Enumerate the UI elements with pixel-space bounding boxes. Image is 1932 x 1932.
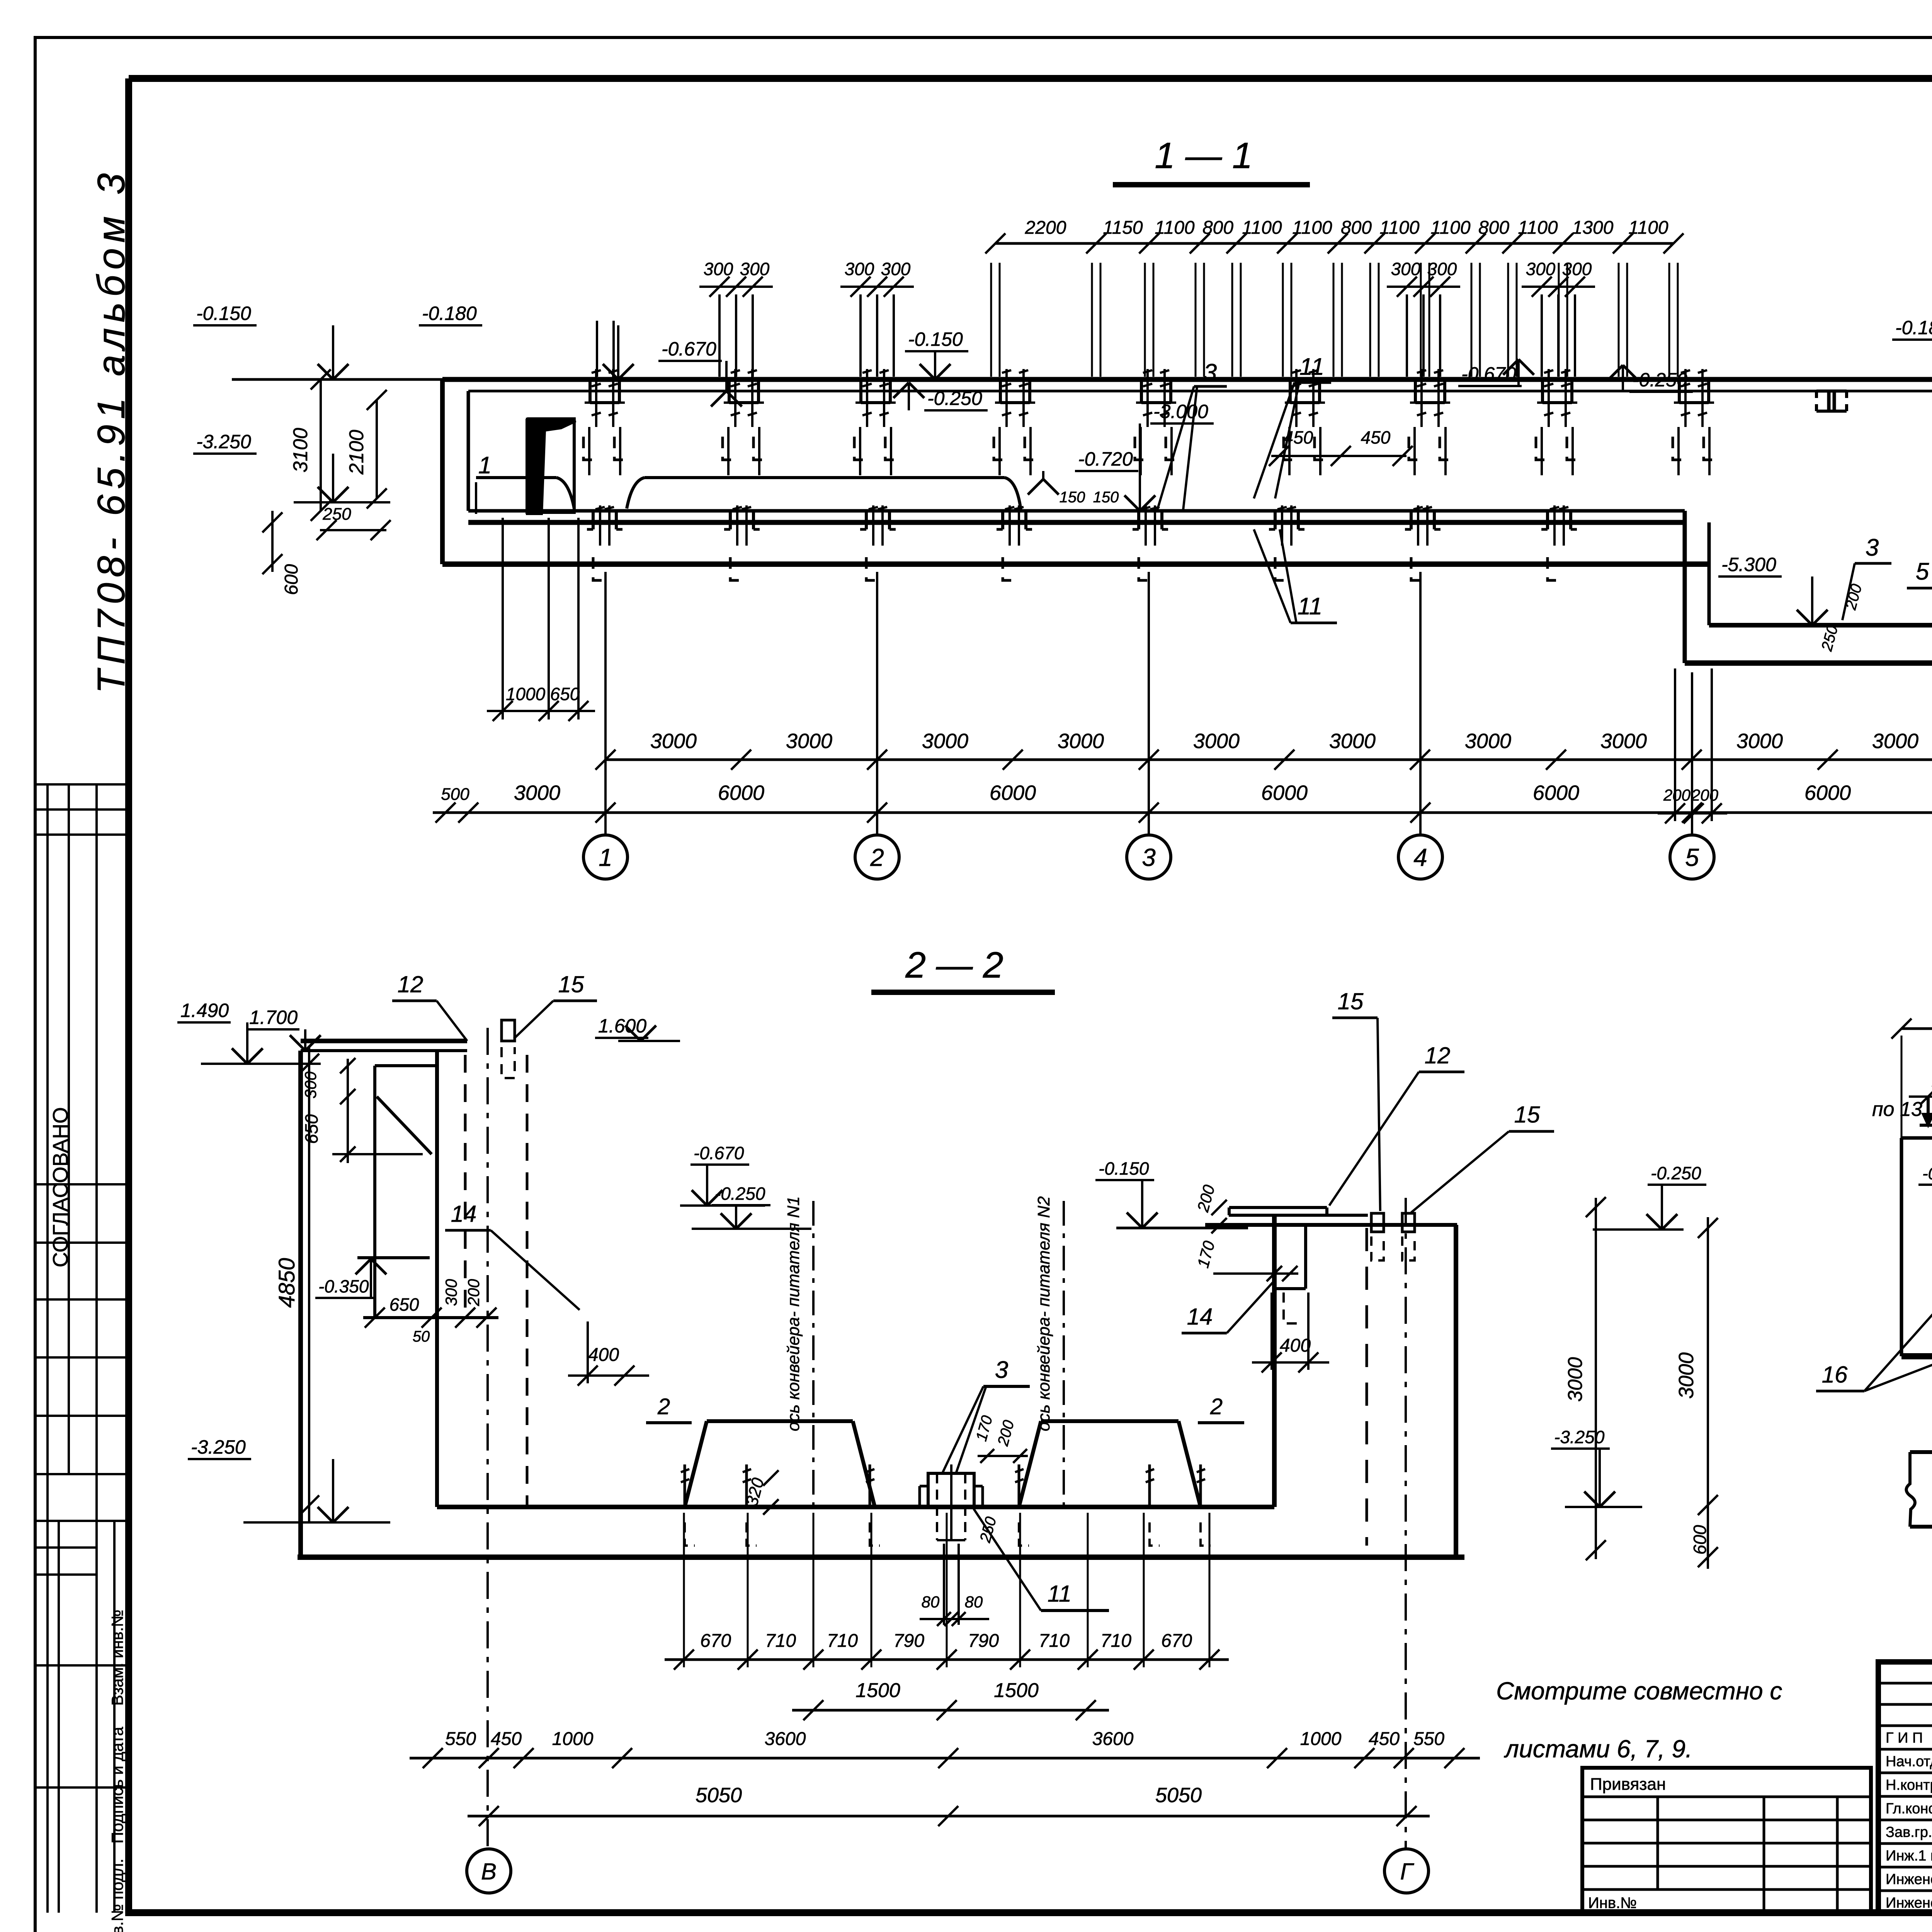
svg-text:3000: 3000 [1872, 730, 1918, 753]
1-1 I-beam under roof [1816, 389, 1847, 393]
1-1 top dimension chain [995, 242, 1673, 245]
svg-text:400: 400 [1280, 1335, 1311, 1356]
1-1 floor anchor pocket 6 [1274, 511, 1277, 529]
1-1 trench lip right [627, 478, 645, 509]
svg-text:12: 12 [1425, 1043, 1451, 1068]
svg-text:Г И П: Г И П [1886, 1730, 1923, 1746]
svg-text:710: 710 [827, 1631, 858, 1651]
svg-text:по 13: по 13 [1872, 1098, 1922, 1121]
2-2 bottom chain row 670-710 [665, 1658, 1229, 1661]
2-2 hidden line right [1366, 1228, 1368, 1546]
svg-text:3000: 3000 [786, 730, 832, 753]
svg-text:Инженер: Инженер [1886, 1871, 1932, 1888]
1-1 bottom slab [442, 561, 1709, 567]
svg-text:710: 710 [1100, 1631, 1131, 1651]
svg-text:-3.250: -3.250 [191, 1436, 246, 1458]
svg-text:1100: 1100 [1430, 218, 1471, 238]
svg-text:2 — 2: 2 — 2 [905, 945, 1003, 986]
svg-text:Н.контр.: Н.контр. [1886, 1777, 1932, 1793]
svg-text:-3.250: -3.250 [196, 431, 251, 452]
svg-text:2: 2 [657, 1394, 670, 1419]
svg-text:2200: 2200 [1025, 218, 1066, 238]
svg-text:3000: 3000 [1564, 1357, 1587, 1402]
svg-text:600: 600 [281, 564, 302, 595]
1-1 roof anchor pocket 9 [1678, 379, 1681, 403]
1-1 pit bottom slab [1685, 660, 1932, 666]
2-2 dowels on right wall [1371, 1213, 1384, 1232]
svg-text:3: 3 [1866, 534, 1879, 561]
svg-text:1100: 1100 [1292, 218, 1332, 238]
svg-text:400: 400 [588, 1345, 619, 1365]
svg-text:670: 670 [1161, 1631, 1192, 1651]
svg-text:300: 300 [301, 1071, 320, 1099]
svg-text:5050: 5050 [1155, 1784, 1202, 1807]
2-2 center anchor block [928, 1473, 974, 1507]
svg-text:550: 550 [445, 1729, 476, 1749]
2-2 axis G dash-dot line [1405, 1198, 1407, 1848]
1-1 roof anchor pocket 2 [728, 379, 731, 403]
svg-text:1100: 1100 [1379, 218, 1420, 238]
1-1 floor anchor pocket 1 [592, 511, 595, 529]
svg-text:450: 450 [1369, 1729, 1400, 1749]
svg-text:300: 300 [881, 259, 911, 279]
svg-text:1.490: 1.490 [180, 1000, 229, 1021]
svg-text:3000: 3000 [1465, 730, 1511, 753]
svg-text:1300: 1300 [1572, 218, 1614, 238]
svg-text:4: 4 [1413, 844, 1427, 871]
svg-text:650: 650 [550, 684, 580, 704]
svg-text:ось конвейера- питателя N2: ось конвейера- питателя N2 [1034, 1196, 1053, 1431]
svg-text:3600: 3600 [765, 1729, 806, 1749]
1-1 axis lines [604, 572, 607, 834]
svg-text:300: 300 [845, 259, 874, 279]
svg-text:-3.000: -3.000 [1153, 401, 1208, 422]
2-2 dim 80 80 [920, 1618, 989, 1620]
2-2 left wall cap [301, 1039, 467, 1043]
svg-text:150: 150 [1093, 489, 1119, 506]
svg-text:300: 300 [1391, 259, 1421, 279]
svg-text:-0.250: -0.250 [1633, 369, 1687, 391]
svg-text:3000: 3000 [1736, 730, 1783, 753]
2-2 niche bottom dims 650 300 200 50 [365, 1308, 385, 1328]
svg-text:200: 200 [464, 1279, 483, 1306]
svg-text:1150: 1150 [1103, 218, 1143, 238]
title block name table grid [1878, 1682, 1932, 1685]
1-1 roof anchor pocket 4 [999, 379, 1002, 403]
1-1 roof anchor pocket 6 [1289, 379, 1292, 403]
svg-text:1500: 1500 [994, 1679, 1039, 1702]
1-1 floor anchor pocket 3 [865, 511, 868, 529]
1-1 dim 2100 left [376, 400, 378, 498]
svg-text:3000: 3000 [1329, 730, 1376, 753]
1-1 roof anchor pocket 7 [1414, 379, 1417, 403]
svg-text:-0.150: -0.150 [1099, 1158, 1149, 1179]
svg-text:16: 16 [1822, 1362, 1848, 1388]
svg-text:1: 1 [478, 452, 492, 479]
svg-text:3: 3 [995, 1357, 1008, 1383]
2-2 dowel on left wall top [502, 1020, 515, 1041]
svg-text:-0.670: -0.670 [1922, 1164, 1932, 1183]
svg-text:Инв.№ подл.: Инв.№ подл. [108, 1859, 126, 1932]
1-1 dim 3100 left [320, 379, 322, 511]
2-2 conveyor axis N2 [1063, 1201, 1065, 1507]
svg-text:3000: 3000 [922, 730, 968, 753]
svg-text:Инв.№: Инв.№ [1588, 1895, 1637, 1912]
1-1 left wall [440, 379, 445, 564]
svg-text:2: 2 [870, 844, 884, 871]
1-1 roof anchor pocket 3 [859, 379, 862, 403]
1-1 roof slab soffit [468, 390, 1932, 393]
svg-text:550: 550 [1413, 1729, 1444, 1749]
1-1 roof anchor pocket 1 [588, 379, 592, 403]
svg-text:1.700: 1.700 [249, 1007, 298, 1028]
svg-text:5: 5 [1916, 558, 1929, 585]
svg-text:1100: 1100 [1155, 218, 1195, 238]
svg-text:1100: 1100 [1518, 218, 1558, 238]
2-2 feeder pedestal 2 [1041, 1419, 1179, 1423]
svg-text:1000: 1000 [506, 684, 546, 704]
svg-text:-0.150: -0.150 [908, 328, 963, 350]
svg-text:14: 14 [451, 1201, 477, 1227]
svg-text:1000: 1000 [1300, 1729, 1342, 1749]
svg-text:листами 6, 7, 9.: листами 6, 7, 9. [1503, 1735, 1692, 1763]
svg-text:300: 300 [740, 259, 770, 279]
1-1 left level line -0.150 [232, 378, 442, 381]
2-2 axis B dash-dot line [486, 1028, 489, 1848]
svg-text:3600: 3600 [1092, 1729, 1134, 1749]
2-2 bottom slab [298, 1554, 1464, 1560]
svg-text:15: 15 [558, 971, 584, 997]
2-2 right wall [1229, 1214, 1368, 1217]
2-2 left wall niche [375, 1064, 437, 1067]
svg-text:650: 650 [389, 1294, 419, 1315]
svg-text:6000: 6000 [1533, 781, 1579, 804]
svg-text:Гл.констр.: Гл.констр. [1886, 1801, 1932, 1817]
svg-text:11: 11 [1299, 354, 1324, 380]
svg-text:3000: 3000 [1193, 730, 1240, 753]
svg-text:710: 710 [765, 1631, 796, 1651]
svg-text:6000: 6000 [990, 781, 1036, 804]
svg-text:80: 80 [965, 1593, 983, 1611]
2-2 bottom chain row 550-450-1000-3600 [410, 1757, 1480, 1760]
svg-text:6000: 6000 [1261, 781, 1308, 804]
1-1 dimension row 3000 [605, 759, 1932, 761]
plan upper slab band [1901, 1136, 1932, 1140]
2-2 dim 4850 [308, 1047, 310, 1522]
svg-text:Г: Г [1400, 1859, 1415, 1884]
svg-text:-0.670: -0.670 [694, 1143, 744, 1163]
1-1 roof slab top [442, 377, 1932, 382]
plan lower band 1.700 [1910, 1450, 1932, 1454]
svg-text:300: 300 [442, 1279, 460, 1306]
2-2 left wall outer face [298, 1051, 303, 1557]
svg-text:5: 5 [1685, 844, 1699, 871]
1-1 sub-dim 300+300 groups [699, 286, 773, 288]
svg-text:3000: 3000 [1675, 1352, 1698, 1399]
privyazan table [1582, 1768, 1871, 1913]
svg-text:Подпись и дата: Подпись и дата [108, 1726, 126, 1844]
svg-text:200: 200 [1691, 786, 1719, 804]
svg-text:Взам. инв.№: Взам. инв.№ [108, 1610, 126, 1706]
svg-text:14: 14 [1187, 1304, 1213, 1330]
svg-text:1: 1 [599, 844, 612, 871]
svg-text:-3.250: -3.250 [1554, 1427, 1605, 1447]
svg-text:300: 300 [704, 259, 733, 279]
svg-text:2100: 2100 [345, 430, 368, 475]
svg-text:3000: 3000 [514, 781, 560, 804]
svg-text:790: 790 [893, 1631, 924, 1651]
svg-text:11: 11 [1048, 1581, 1071, 1607]
2-2 left wall inner face [435, 1051, 439, 1507]
svg-text:-0.150: -0.150 [196, 303, 251, 324]
svg-text:-0.180: -0.180 [422, 303, 477, 324]
svg-text:710: 710 [1039, 1631, 1070, 1651]
2-2 axis circle G [1384, 1849, 1429, 1893]
svg-text:1500: 1500 [855, 1679, 900, 1702]
2-2 feeder pedestal 1 [707, 1419, 853, 1423]
svg-text:Инженер: Инженер [1886, 1895, 1932, 1911]
1-1 floor anchor pocket 5 [1137, 511, 1140, 529]
svg-text:-5.300: -5.300 [1721, 554, 1776, 575]
svg-text:5050: 5050 [696, 1784, 742, 1807]
svg-text:-0.720: -0.720 [1078, 448, 1133, 470]
2-2 bottom chain row 1500 [792, 1709, 1109, 1712]
svg-text:4850: 4850 [274, 1258, 299, 1308]
svg-text:3000: 3000 [650, 730, 697, 753]
svg-text:1 — 1: 1 — 1 [1155, 135, 1252, 176]
svg-text:ТП708- 65.91 альбом 3: ТП708- 65.91 альбом 3 [90, 168, 133, 694]
svg-text:3: 3 [1142, 844, 1156, 871]
svg-text:12: 12 [398, 971, 423, 997]
svg-text:Зав.гр.: Зав.гр. [1886, 1824, 1932, 1840]
1-1 dim 1000 650 [502, 518, 504, 719]
svg-text:1.600: 1.600 [598, 1015, 646, 1037]
svg-text:450: 450 [491, 1729, 522, 1749]
svg-text:1100: 1100 [1242, 218, 1282, 238]
svg-text:6000: 6000 [718, 781, 764, 804]
svg-text:650: 650 [301, 1114, 321, 1144]
svg-text:3000: 3000 [1058, 730, 1104, 753]
svg-text:-0.180: -0.180 [1895, 317, 1932, 338]
2-2 axis circle V [467, 1849, 511, 1893]
svg-text:-0.250: -0.250 [927, 388, 982, 409]
svg-text:790: 790 [968, 1631, 999, 1651]
1-1 anchor bolt risers [990, 263, 992, 377]
2-2 floor pocket hidden hooks [684, 1464, 686, 1507]
svg-text:-0.670: -0.670 [1461, 363, 1516, 385]
1-1 floor anchor pocket 7 [1410, 511, 1413, 529]
1-1 tunnel floor top [468, 509, 1685, 513]
2-2 right wall corbel [1304, 1225, 1307, 1289]
sidebar table grid [35, 783, 129, 786]
svg-text:3000: 3000 [1600, 730, 1647, 753]
1-1 dim 200 200 below pit wall [1658, 812, 1727, 815]
svg-text:200: 200 [1663, 786, 1691, 804]
svg-text:11: 11 [1298, 593, 1322, 620]
1-1 roof anchor pocket 5 [1140, 379, 1143, 403]
1-1 roof anchor pocket 8 [1541, 379, 1544, 403]
svg-text:-0.350: -0.350 [318, 1276, 369, 1296]
2-2 dim 3000 right [1707, 1217, 1709, 1517]
1-1 dimension row 6000 [433, 811, 1932, 814]
1-1 floor anchor pocket 2 [729, 511, 732, 529]
1-1 floor anchor pocket 4 [1001, 511, 1004, 529]
svg-text:150: 150 [1060, 489, 1085, 506]
svg-text:3100: 3100 [289, 428, 312, 473]
svg-text:50: 50 [413, 1328, 430, 1345]
2-2 conveyor axis N1 [812, 1201, 815, 1507]
svg-text:450: 450 [1361, 427, 1391, 447]
svg-text:6000: 6000 [1804, 781, 1851, 804]
svg-text:80: 80 [922, 1593, 940, 1611]
2-2 floor [437, 1505, 1274, 1509]
2-2 right wall raised block [1229, 1206, 1327, 1209]
svg-text:1000: 1000 [552, 1729, 594, 1749]
svg-text:15: 15 [1338, 988, 1364, 1014]
svg-text:300: 300 [1526, 259, 1556, 279]
svg-text:Инж.1 кат: Инж.1 кат [1886, 1848, 1932, 1864]
1-1 axis circles 1-6 [583, 835, 628, 879]
1-1 floor anchor pocket 8 [1546, 511, 1549, 529]
2-2 left wall hidden edges [464, 1055, 467, 1318]
2-2 right wall top level line [1116, 1227, 1248, 1230]
svg-text:500: 500 [441, 785, 469, 804]
1-1 trench lip left [476, 476, 556, 479]
svg-text:15: 15 [1514, 1102, 1540, 1128]
svg-text:Нач.отд.: Нач.отд. [1886, 1753, 1932, 1770]
1-1 pit step wall [1683, 511, 1687, 663]
svg-text:В: В [481, 1859, 497, 1884]
plan left dim 3000 [1595, 1198, 1597, 1559]
svg-text:ось конвейера- питателя N1: ось конвейера- питателя N1 [784, 1196, 803, 1431]
svg-text:Привязан: Привязан [1590, 1775, 1666, 1794]
svg-text:-0.250: -0.250 [715, 1184, 765, 1204]
title block outer [1878, 1662, 1932, 1913]
2-2 bottom chain row 5050 [468, 1815, 1430, 1818]
plan dim 3000 top [1901, 1027, 1932, 1030]
svg-text:670: 670 [700, 1631, 731, 1651]
svg-text:300: 300 [1427, 259, 1457, 279]
1-1 door opening black leaf [527, 419, 576, 514]
svg-text:3: 3 [1204, 359, 1217, 386]
svg-text:-0.250: -0.250 [1651, 1163, 1701, 1183]
svg-text:1100: 1100 [1628, 218, 1668, 238]
1-1 pit floor [1709, 623, 1932, 628]
svg-text:Смотрите совместно с: Смотрите совместно с [1496, 1677, 1782, 1705]
svg-text:300: 300 [1562, 259, 1592, 279]
plan dim 200 200 [1909, 1095, 1932, 1098]
svg-text:-0.670: -0.670 [662, 338, 716, 360]
1-1 tunnel floor surface [468, 520, 1685, 525]
svg-text:2: 2 [1210, 1394, 1223, 1419]
